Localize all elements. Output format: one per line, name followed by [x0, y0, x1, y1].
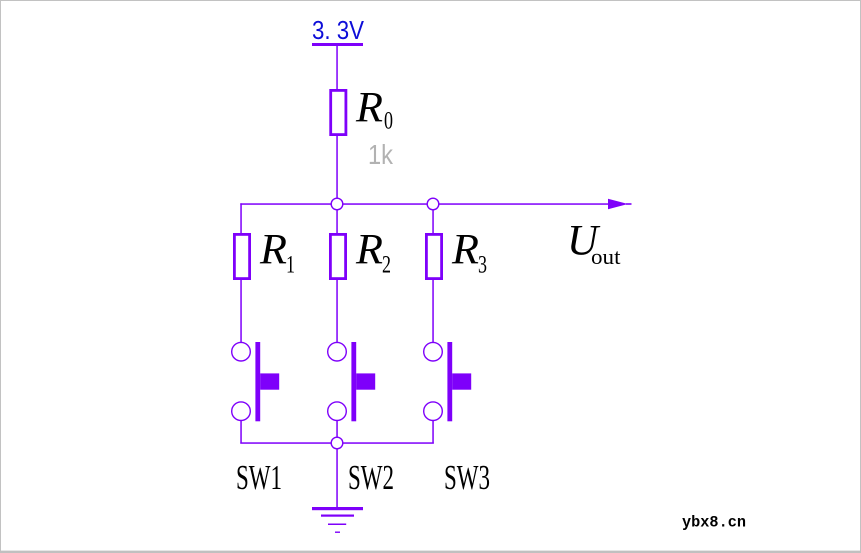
svg-text:R: R — [259, 227, 287, 274]
wire: R1 bottom to SW1 top — [240, 279, 242, 343]
wire: SW2 bottom to bottom bus — [336, 421, 338, 444]
svg-text:2: 2 — [382, 252, 391, 279]
wire: bottom bus horizontal — [240, 442, 433, 444]
node B (junction circle on top bus) — [331, 198, 343, 210]
label R1 — [259, 227, 295, 279]
wire: node C down to R3 — [432, 204, 434, 233]
wire: bus left corner down to R1 — [240, 203, 242, 233]
wire: SW1 bottom to bottom bus — [240, 421, 242, 444]
label R0 — [355, 85, 393, 135]
wire: R3 bottom to SW3 top — [432, 279, 434, 343]
ground — [312, 507, 363, 533]
svg-text:0: 0 — [384, 108, 393, 135]
label R2 — [355, 227, 391, 279]
resistor R3 — [426, 234, 441, 278]
wire: node D down to ground — [336, 449, 338, 508]
label R3 — [451, 227, 487, 279]
resistor R1 — [234, 234, 249, 278]
switch SW2 — [328, 342, 376, 421]
resistor R0 — [331, 90, 346, 134]
node C (junction circle on top bus) — [427, 198, 439, 210]
svg-text:out: out — [591, 244, 621, 269]
svg-text:R: R — [355, 85, 383, 132]
wire: node B down to R2 — [336, 204, 338, 233]
wire: top bus horizontal — [240, 203, 608, 205]
svg-text:1k: 1k — [368, 139, 394, 170]
svg-text:SW3: SW3 — [444, 458, 490, 497]
resistor R2 — [330, 234, 345, 278]
svg-text:SW1: SW1 — [236, 458, 282, 497]
node D (junction circle on bottom bus) — [331, 437, 343, 449]
switch SW1 — [232, 342, 280, 421]
wire: SW3 bottom to bottom bus — [432, 421, 434, 444]
svg-text:3. 3V: 3. 3V — [312, 15, 365, 45]
wire: R2 bottom to SW2 top — [336, 279, 338, 343]
label Uout — [567, 218, 621, 270]
wire: 3.3V bar to R0 top — [336, 46, 338, 89]
svg-text:R: R — [355, 227, 383, 274]
svg-text:3: 3 — [478, 252, 487, 279]
arrow to Uout — [608, 199, 628, 209]
switch SW3 — [424, 342, 472, 421]
svg-text:ybx8.cn: ybx8.cn — [682, 514, 746, 532]
svg-text:1: 1 — [286, 252, 295, 279]
power net 3.3V label — [312, 15, 365, 45]
svg-text:R: R — [451, 227, 479, 274]
power rail bar 3.3V — [312, 43, 363, 46]
svg-text:SW2: SW2 — [348, 458, 394, 497]
wire: R0 bottom to top bus — [336, 136, 338, 204]
